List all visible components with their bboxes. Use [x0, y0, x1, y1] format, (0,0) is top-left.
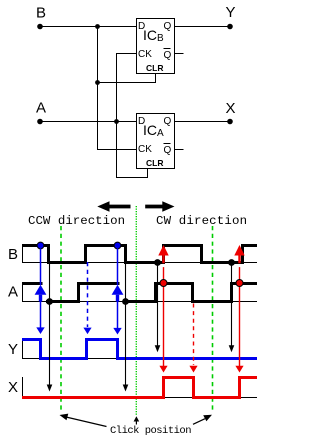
svg-text:Y: Y [226, 4, 236, 21]
blue dashed arrow [83, 262, 91, 334]
wire Qbar stub U1 [174, 53, 184, 55]
row A baseline [22, 301, 257, 303]
svg-text:Click position: Click position [110, 425, 192, 437]
black edge arrow 2 [122, 264, 129, 392]
wire Q of U1 to Y [174, 26, 230, 28]
svg-text:Q: Q [164, 116, 172, 127]
waveform Y [22, 340, 257, 359]
svg-text:X: X [226, 100, 236, 117]
junction on A wire [114, 119, 119, 124]
svg-text:CLR: CLR [146, 63, 163, 73]
direction arrow right (CW) [145, 201, 174, 211]
click pointer arrow middle [134, 416, 140, 424]
svg-text:CK: CK [138, 49, 152, 60]
node A input terminal [37, 119, 43, 125]
flip-flop U2 ICA body [137, 114, 175, 169]
wire B vertical branch [98, 27, 137, 150]
wire B to CLR of U1 [98, 74, 156, 83]
svg-text:CCW direction: CCW direction [28, 214, 125, 228]
svg-text:A: A [8, 284, 18, 301]
blue sample arrow 1 [35, 242, 47, 334]
row B axis [22, 244, 24, 263]
wire A to D of U2 [40, 121, 137, 123]
svg-text:B: B [8, 246, 18, 263]
flip-flop U1 ICB body [137, 19, 175, 74]
svg-text:Q: Q [164, 145, 172, 156]
row X baseline [22, 397, 257, 399]
wire B to D of U1 [40, 26, 137, 28]
center line (green dotted) [135, 206, 137, 416]
direction arrow left (CCW) [97, 201, 130, 211]
wire Qbar stub U2 [174, 149, 184, 151]
svg-text:A: A [36, 100, 46, 117]
row Y axis [22, 339, 24, 359]
wire A to CK of U1 [117, 54, 137, 122]
junction on B wire [95, 24, 100, 29]
svg-text:CW direction: CW direction [156, 214, 247, 228]
click line left (green dashed) [60, 226, 62, 413]
svg-text:Q: Q [164, 21, 172, 32]
svg-text:X: X [8, 379, 18, 396]
U1 Qbar overline [164, 48, 171, 50]
wire Q of U2 to X [174, 121, 230, 123]
click pointer arrow left [60, 414, 107, 427]
node X output terminal [227, 119, 233, 125]
blue sample arrow 2 [112, 242, 124, 334]
wire A to CLR of U2 [117, 122, 148, 178]
click line right (green dashed) [212, 226, 214, 413]
node Y output terminal [227, 24, 233, 30]
svg-text:CLR: CLR [146, 158, 163, 168]
red sample arrow 2 [234, 245, 244, 373]
waveform A [22, 284, 257, 302]
waveform X [22, 378, 257, 398]
black edge arrow 3 [154, 259, 161, 352]
svg-text:Y: Y [8, 341, 18, 358]
black edge arrow 4 [228, 259, 235, 352]
waveform B [22, 246, 257, 263]
row A axis [22, 283, 24, 302]
svg-text:CK: CK [138, 144, 152, 155]
svg-text:Q: Q [164, 50, 172, 61]
click pointer arrow right [193, 415, 212, 425]
junction B to CLR of U1 [95, 80, 100, 85]
black edge arrow 1 [46, 264, 53, 392]
svg-text:B: B [36, 5, 46, 22]
row X axis [22, 377, 24, 398]
red dashed arrow [189, 304, 197, 373]
row B baseline [22, 262, 257, 264]
row Y baseline [22, 358, 257, 360]
red sample arrow 1 [158, 245, 168, 373]
node B input terminal [37, 24, 43, 30]
U2 Qbar overline [164, 143, 171, 145]
